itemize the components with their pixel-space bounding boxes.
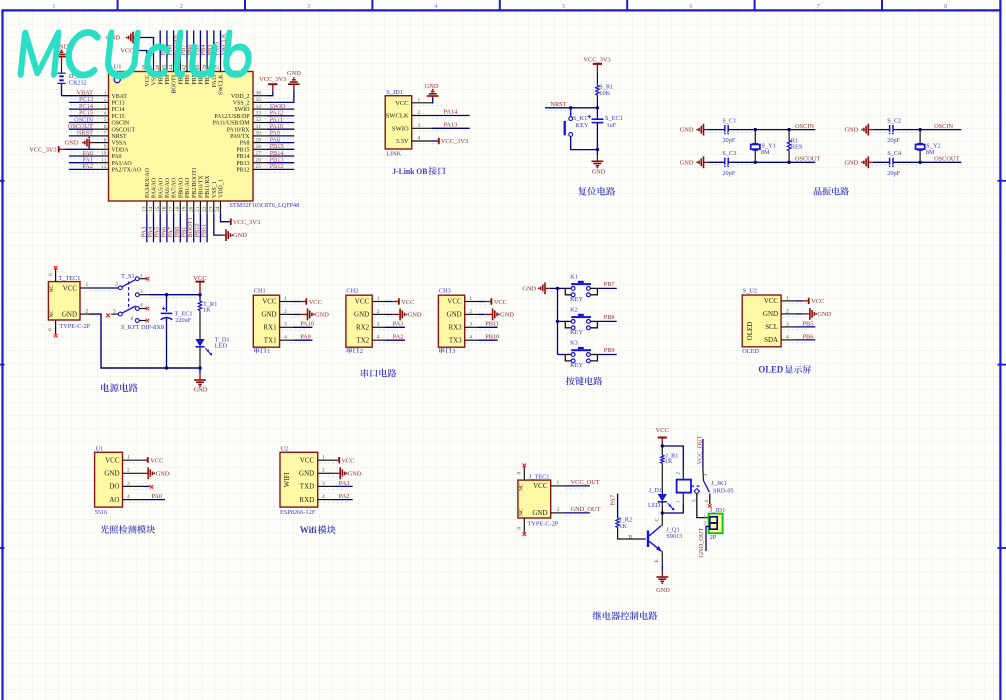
wire net OSCOUT right	[918, 156, 961, 164]
svg-text:8M: 8M	[926, 149, 935, 156]
svg-text:PB8: PB8	[604, 314, 615, 321]
svg-text:PB10/TX: PB10/TX	[199, 175, 205, 198]
svg-text:26: 26	[256, 157, 262, 163]
svg-text:1K: 1K	[619, 523, 627, 530]
resistor T_R1 1K	[198, 295, 217, 339]
svg-text:8M: 8M	[761, 149, 770, 156]
svg-text:B: B	[629, 535, 633, 541]
svg-text:1: 1	[322, 455, 325, 461]
wire U1 pin 48 VCC to VCC label	[120, 48, 146, 59]
sensor U1 5516 body	[95, 446, 143, 507]
power port GND at CH1	[308, 309, 330, 321]
svg-text:0: 0	[517, 527, 523, 530]
svg-text:S_U2: S_U2	[743, 288, 757, 295]
LED T_D1	[195, 336, 229, 369]
svg-text:PA10/RX: PA10/RX	[227, 127, 250, 133]
svg-text:0: 0	[517, 472, 523, 475]
wire CH2 pin 4 net PA2	[386, 334, 406, 341]
svg-text:23: 23	[209, 206, 215, 212]
svg-text:PA4/AO: PA4/AO	[152, 177, 158, 198]
svg-text:PA9: PA9	[300, 334, 311, 341]
power port VCC at 5516	[148, 457, 164, 465]
logo MCUclub	[18, 30, 254, 79]
svg-text:GND: GND	[522, 286, 536, 293]
U1 top pins 48-37 with pin names and numbers	[142, 59, 225, 95]
J_TEC1 bottom no-connect pin	[517, 518, 527, 536]
wire CH3 pin 4 net PB10	[478, 334, 499, 341]
resistor J_R1 1K	[661, 446, 679, 494]
power port VCC_3V3 at S_JD1 pin 4	[439, 138, 468, 145]
svg-text:S_C1: S_C1	[722, 117, 736, 124]
svg-text:VBAT: VBAT	[77, 90, 94, 97]
wire GND bus to keys with junctions	[550, 287, 560, 355]
power port GND below transistor	[656, 577, 670, 594]
svg-text:37: 37	[215, 64, 221, 70]
svg-text:7: 7	[817, 3, 820, 10]
label OLED below body	[742, 348, 759, 355]
switch T_S1 S_KFT DIP-8X8	[106, 273, 164, 331]
power port VCC_3V3 above S_R1	[583, 57, 610, 72]
svg-text:KEY: KEY	[576, 122, 589, 129]
svg-text:GND: GND	[299, 470, 314, 478]
wire switch contact 3 to VCC rail with junctions	[139, 293, 202, 296]
title reset circuit	[578, 187, 615, 196]
svg-text:OLED: OLED	[758, 366, 783, 376]
svg-text:3: 3	[786, 321, 789, 327]
T_TEC1 top no-connect pin	[48, 266, 58, 282]
svg-text:1: 1	[469, 296, 472, 302]
svg-text:39: 39	[202, 64, 208, 70]
wire net OSCIN left	[754, 123, 816, 131]
svg-text:GND: GND	[817, 311, 831, 318]
svg-text:PA2/TX/AO: PA2/TX/AO	[112, 168, 142, 174]
svg-text:PA1/AO: PA1/AO	[112, 161, 133, 167]
svg-text:GND: GND	[680, 127, 694, 134]
svg-text:PB11: PB11	[201, 224, 208, 238]
wire K3 net PB9	[597, 347, 616, 355]
svg-text:GND: GND	[532, 509, 547, 517]
svg-text:BOOT0: BOOT0	[172, 74, 178, 93]
svg-text:LED: LED	[215, 343, 228, 350]
power port VCC above T_R1	[193, 275, 207, 295]
U1 left net wires PC13-NRST PA0-PA2 with net labels	[68, 96, 94, 170]
svg-text:PA2: PA2	[339, 493, 350, 500]
svg-text:C: C	[654, 518, 660, 522]
svg-text:1K: 1K	[203, 307, 211, 314]
wire T_TEC1 pin 2 GND to bottom rail	[80, 308, 200, 368]
title relay control circuit	[593, 611, 658, 620]
svg-text:1: 1	[127, 455, 130, 461]
U1 bottom net wires PA3-PB11 with vertical net labels	[140, 214, 207, 243]
svg-text:VCC: VCC	[145, 74, 151, 86]
power port GND at S_C4	[844, 156, 872, 168]
svg-text:PA3: PA3	[339, 480, 350, 487]
crystal S_Y2 8M	[916, 130, 941, 163]
svg-text:K1: K1	[570, 273, 578, 280]
svg-text:36: 36	[256, 90, 262, 96]
relay throw contact 5 wire to J_JD1 pin 1	[691, 489, 709, 518]
svg-text:GND: GND	[104, 470, 119, 478]
U1 top net wires PB9-SWCLK with vertical net labels	[160, 30, 227, 59]
svg-text:16: 16	[162, 206, 168, 212]
svg-text:VCC: VCC	[105, 456, 120, 464]
capacitor S_EC1 1uF polarized	[588, 108, 623, 156]
wire relay common net VCC_OUT vertical	[696, 435, 709, 480]
svg-text:GND: GND	[65, 140, 79, 147]
resistor R1 RES	[787, 128, 802, 164]
svg-text:J_D1: J_D1	[649, 487, 662, 494]
wire VCC to R1 and relay coil with junction	[661, 442, 684, 480]
T_TEC1 bottom no-connect pin	[48, 320, 58, 337]
wire U1 pin 4 net PA0	[143, 493, 166, 500]
power port GND at U1 pin 8 VSSA	[65, 137, 94, 149]
svg-text:LED: LED	[648, 502, 661, 509]
wire J_TEC1 pin 1 net VCC_OUT	[551, 479, 600, 486]
connector CH1 serial header body	[253, 288, 293, 348]
wire S_U2 pin 3 net PB5	[795, 320, 815, 327]
svg-text:PA2: PA2	[82, 163, 93, 170]
wire U2 pin 3 net PA3	[333, 480, 353, 487]
power port VCC at S_U2	[809, 298, 825, 306]
svg-text:WIFI: WIFI	[283, 471, 291, 487]
svg-text:4: 4	[127, 494, 130, 500]
power port VCC_3V3 at U1 pin 24	[231, 219, 260, 227]
svg-text:4: 4	[786, 334, 789, 340]
svg-text:1: 1	[786, 295, 789, 301]
svg-text:10K: 10K	[599, 90, 610, 97]
svg-text:GND: GND	[348, 471, 362, 478]
svg-text:2: 2	[115, 282, 118, 288]
J_TEC1 top no-connect pin	[517, 464, 527, 481]
svg-text:GND: GND	[763, 310, 778, 318]
svg-text:SRD-05: SRD-05	[713, 487, 734, 494]
svg-text:NC: NC	[49, 310, 55, 318]
svg-text:VCC_OUT: VCC_OUT	[696, 435, 703, 464]
wire U1 pin 1 to VCC power port	[143, 459, 148, 461]
svg-text:3: 3	[703, 474, 709, 477]
wire J_TEC1 pin 2 net GND_OUT	[551, 506, 601, 513]
wire S_JD1 pin 3 net PA13	[432, 121, 470, 128]
svg-text:PA14: PA14	[444, 109, 459, 116]
svg-text:VDDA: VDDA	[112, 147, 130, 153]
svg-text:1: 1	[52, 3, 55, 10]
svg-text:GND: GND	[680, 159, 694, 166]
svg-text:VCC_3V3: VCC_3V3	[29, 146, 56, 153]
svg-text:0: 0	[48, 273, 54, 276]
svg-text:OSCOUT: OSCOUT	[795, 156, 820, 163]
svg-text:S_K1: S_K1	[573, 115, 587, 122]
svg-text:S_EC1: S_EC1	[605, 115, 623, 122]
svg-text:8: 8	[944, 3, 947, 10]
svg-text:OSCOUT: OSCOUT	[934, 156, 959, 163]
svg-text:9: 9	[104, 144, 107, 150]
wire K1 net PB7	[597, 281, 616, 289]
svg-text:LINK: LINK	[386, 151, 401, 158]
no-connect X at DO pin	[143, 485, 154, 489]
svg-text:18: 18	[175, 206, 181, 212]
svg-text:PB2/BOOT1: PB2/BOOT1	[192, 167, 198, 198]
svg-text:PB15: PB15	[236, 147, 249, 153]
wire CH1 pin 1 to VCC power port	[293, 301, 306, 303]
svg-text:OSCOUT: OSCOUT	[112, 127, 136, 133]
wire CH2 pin 3 net PA3	[386, 321, 406, 328]
svg-text:PA0: PA0	[152, 493, 163, 500]
svg-text:2: 2	[284, 309, 287, 315]
power port GND above S_JD1	[425, 83, 439, 96]
svg-text:ESP8266-12F: ESP8266-12F	[280, 509, 316, 516]
svg-text:PB14: PB14	[236, 154, 249, 160]
svg-text:CH2: CH2	[346, 288, 358, 295]
wire T_TEC1 pin 1 VCC to switch	[80, 282, 118, 288]
svg-text:PA11/USB/DM: PA11/USB/DM	[213, 121, 251, 127]
relay contact dashed link and blade	[691, 481, 710, 493]
svg-text:1: 1	[267, 348, 270, 355]
svg-text:TXD: TXD	[300, 483, 314, 491]
wire S_U2 pin 1 to VCC power port	[795, 300, 808, 302]
svg-text:20pF: 20pF	[887, 137, 900, 144]
svg-text:CH3: CH3	[439, 288, 451, 295]
svg-text:42: 42	[182, 64, 188, 70]
capacitor S_C1 20pF	[708, 117, 755, 144]
svg-text:3: 3	[284, 322, 287, 328]
svg-text:TYPE-C-2P: TYPE-C-2P	[59, 323, 90, 330]
svg-text:15: 15	[155, 206, 161, 212]
svg-text:S_JD1: S_JD1	[386, 89, 403, 96]
wire S_U2 pin 4 net PB6	[795, 333, 815, 340]
svg-text:RX3: RX3	[448, 324, 462, 332]
svg-text:220uF: 220uF	[175, 317, 192, 324]
svg-text:1K: 1K	[665, 458, 673, 465]
svg-text:PA9/TX: PA9/TX	[230, 134, 250, 140]
transistor J_Q1 S9013	[629, 513, 683, 566]
power port VCC_3V3 at U1 pin 9 VDDA	[29, 146, 93, 153]
svg-text:3: 3	[418, 123, 421, 129]
connector CH2 serial header body	[346, 288, 386, 348]
svg-text:GND: GND	[261, 311, 276, 319]
svg-text:2: 2	[418, 110, 421, 116]
svg-text:U2: U2	[281, 446, 289, 453]
svg-text:1: 1	[418, 97, 421, 103]
power port GND at CH3	[493, 309, 515, 321]
svg-text:GND: GND	[354, 311, 369, 319]
wire U1 pin 2 to GND power port	[143, 472, 149, 474]
svg-text:J_TEC1: J_TEC1	[529, 473, 550, 480]
wire CH3 pin 2 to GND power port	[478, 313, 493, 315]
svg-text:GND_OUT: GND_OUT	[698, 528, 705, 558]
wire K2 net PB8	[597, 314, 616, 322]
svg-text:NRST: NRST	[112, 134, 127, 140]
svg-text:1: 1	[104, 90, 107, 96]
power port GND at 5516	[148, 467, 170, 479]
power port VCC_3V3 at U1 pin 36	[259, 76, 286, 84]
svg-text:2: 2	[360, 348, 363, 355]
svg-text:VCC: VCC	[150, 458, 163, 465]
U1 left pins 1-12 with pin names and numbers	[94, 90, 142, 173]
svg-text:CH1: CH1	[254, 288, 266, 295]
svg-text:PB11/RX: PB11/RX	[205, 175, 211, 198]
power port GND at U1 pin 23	[226, 229, 247, 241]
display module S_U2 OLED body	[742, 288, 795, 347]
power port GND at U1 pin 35	[287, 70, 301, 84]
svg-text:RES: RES	[791, 143, 803, 150]
svg-text:GND: GND	[844, 159, 858, 166]
power port VCC at CH3	[491, 298, 507, 306]
svg-text:PA3: PA3	[393, 321, 404, 328]
svg-text:17: 17	[168, 206, 174, 212]
wire S_JD1 pin 4 to VCC_3V3 power port	[432, 140, 439, 142]
svg-text:4: 4	[377, 335, 380, 341]
svg-text:K2: K2	[570, 306, 578, 313]
module U2 ESP8266-12F body	[280, 446, 333, 507]
U1 right pins 36-25 with pin names and numbers	[213, 90, 267, 173]
IC U1 STM32F103C8T6_LQFP48 body	[109, 64, 300, 210]
title wifi module	[300, 525, 336, 536]
wire VDD_2 pin 36 to VCC_3V3 power port	[267, 84, 273, 96]
push button K3 KEY	[558, 340, 598, 370]
svg-text:OSCIN: OSCIN	[795, 123, 814, 130]
svg-text:NC: NC	[49, 285, 55, 293]
svg-text:VDD_2: VDD_2	[231, 94, 250, 100]
power port GND at S_C2	[844, 124, 872, 136]
svg-text:VCC_3V3: VCC_3V3	[233, 219, 260, 226]
svg-text:GND_OUT: GND_OUT	[571, 506, 601, 513]
wire U2 pin 2 to GND power port	[333, 472, 340, 474]
power port VCC at CH1	[306, 298, 322, 306]
svg-text:3: 3	[322, 481, 325, 487]
power port GND at S_U2	[810, 308, 832, 320]
svg-text:22: 22	[202, 206, 208, 212]
label serial port 2	[347, 347, 363, 355]
wire U2 pin 1 to VCC power port	[333, 459, 339, 461]
svg-text:VCC: VCC	[811, 298, 824, 305]
svg-text:1: 1	[704, 514, 707, 520]
svg-text:S_KFT DIP-8X8: S_KFT DIP-8X8	[121, 324, 164, 331]
svg-text:6: 6	[689, 3, 692, 10]
svg-text:PB6: PB6	[803, 333, 814, 340]
svg-text:SWIO: SWIO	[392, 126, 409, 133]
svg-text:14: 14	[148, 206, 154, 212]
battery D_3.3V CR232 with wire to VBAT pin 1	[57, 64, 93, 96]
svg-text:PA13: PA13	[444, 121, 458, 128]
svg-text:4: 4	[704, 500, 710, 503]
power port GND at S_C1	[680, 124, 708, 136]
capacitor S_C2 20pF	[873, 117, 920, 144]
connector J_TEC1 TYPE-C-2P body	[518, 473, 559, 527]
svg-text:VCC: VCC	[395, 100, 409, 107]
svg-text:VSS_2: VSS_2	[233, 101, 250, 107]
svg-text:VCC: VCC	[309, 299, 322, 306]
svg-text:PB9: PB9	[604, 347, 615, 354]
connector S_JD1 LINK body	[385, 89, 432, 158]
wire U2 pin 4 net PA2	[333, 493, 353, 500]
wire emitter to GND port	[661, 566, 663, 577]
svg-text:5516: 5516	[95, 509, 108, 516]
svg-text:J-Link OB: J-Link OB	[392, 166, 427, 176]
connector CH3 serial header body	[438, 288, 478, 348]
svg-text:PA12/USB/DP: PA12/USB/DP	[214, 114, 250, 120]
power port GND at ESP8266	[340, 467, 362, 479]
svg-text:VCC: VCC	[494, 299, 507, 306]
svg-text:4: 4	[284, 335, 287, 341]
svg-text:3.3V: 3.3V	[396, 138, 409, 145]
connector T_TEC1 TYPE-C-2P body	[48, 275, 90, 330]
svg-text:SWCLK: SWCLK	[219, 74, 225, 95]
svg-text:PB12: PB12	[236, 168, 249, 174]
svg-text:STM32F103C8T6_LQFP48: STM32F103C8T6_LQFP48	[230, 202, 300, 209]
wire CH2 pin 1 to VCC power port	[386, 301, 399, 303]
svg-text:4: 4	[469, 335, 472, 341]
svg-text:TYPE-C-2P: TYPE-C-2P	[528, 520, 559, 527]
power port GND below power circuit	[194, 380, 208, 394]
svg-text:PB7: PB7	[604, 281, 615, 288]
svg-text:SWIO: SWIO	[234, 107, 250, 113]
svg-text:U1: U1	[114, 64, 122, 71]
svg-text:PA3/RX/AO: PA3/RX/AO	[145, 167, 151, 198]
U1 right net wires SWIO PA12-PA8 PB15-PB12 with net labels	[267, 103, 294, 170]
svg-text:CR232: CR232	[69, 79, 87, 86]
svg-text:S_C4: S_C4	[887, 150, 902, 157]
svg-text:VCC_3V3: VCC_3V3	[583, 57, 610, 64]
svg-text:11: 11	[101, 157, 106, 163]
svg-text:RXD: RXD	[299, 496, 314, 504]
resistor S_R1 10K	[596, 71, 614, 107]
svg-text:KEY: KEY	[570, 296, 583, 303]
svg-text:PA7: PA7	[610, 495, 617, 506]
svg-text:3: 3	[307, 3, 310, 10]
svg-text:RX1: RX1	[263, 324, 277, 332]
wire CH1 pin 2 to GND power port	[293, 313, 308, 315]
svg-text:VCC: VCC	[401, 299, 414, 306]
svg-text:T_S1: T_S1	[121, 273, 135, 280]
label 5516 below body	[95, 509, 108, 516]
svg-text:44: 44	[168, 64, 174, 70]
svg-text:3: 3	[469, 322, 472, 328]
svg-text:2: 2	[704, 521, 707, 527]
svg-text:PC14: PC14	[112, 107, 125, 113]
svg-text:RX2: RX2	[356, 324, 370, 332]
svg-text:4: 4	[322, 494, 325, 500]
svg-text:27: 27	[256, 151, 262, 157]
svg-text:PA7/AO: PA7/AO	[172, 177, 178, 198]
net stub PA7 to J_R2	[610, 494, 618, 518]
svg-text:2: 2	[86, 308, 89, 314]
title OLED display	[758, 365, 811, 375]
wire U1 pin 47 VSS to GND power port	[133, 38, 154, 59]
svg-text:1uF: 1uF	[607, 122, 617, 129]
svg-text:VCC: VCC	[262, 298, 277, 306]
svg-text:13: 13	[142, 206, 148, 212]
svg-text:SCL: SCL	[765, 323, 778, 331]
svg-text:PC13: PC13	[112, 101, 125, 107]
svg-text:2: 2	[322, 468, 325, 474]
power port GND at S_C3	[680, 156, 708, 168]
svg-text:J_JK1: J_JK1	[711, 480, 727, 487]
svg-text:1: 1	[377, 296, 380, 302]
svg-text:2: 2	[557, 507, 560, 513]
svg-text:S_C2: S_C2	[887, 117, 901, 124]
svg-text:VBAT: VBAT	[112, 94, 128, 100]
svg-text:GND: GND	[194, 387, 208, 394]
svg-text:VCC: VCC	[63, 285, 78, 293]
svg-text:2: 2	[675, 472, 681, 475]
svg-text:S_C3: S_C3	[722, 150, 736, 157]
wire U1 pin 24 VDD_1 to VCC_3V3 power port	[221, 214, 231, 222]
wire CH1 pin 3 net PA10	[293, 321, 314, 328]
svg-text:PA8: PA8	[240, 141, 250, 147]
svg-text:VCC: VCC	[341, 458, 354, 465]
svg-text:PB5: PB5	[803, 320, 814, 327]
svg-text:OLED: OLED	[742, 348, 759, 355]
